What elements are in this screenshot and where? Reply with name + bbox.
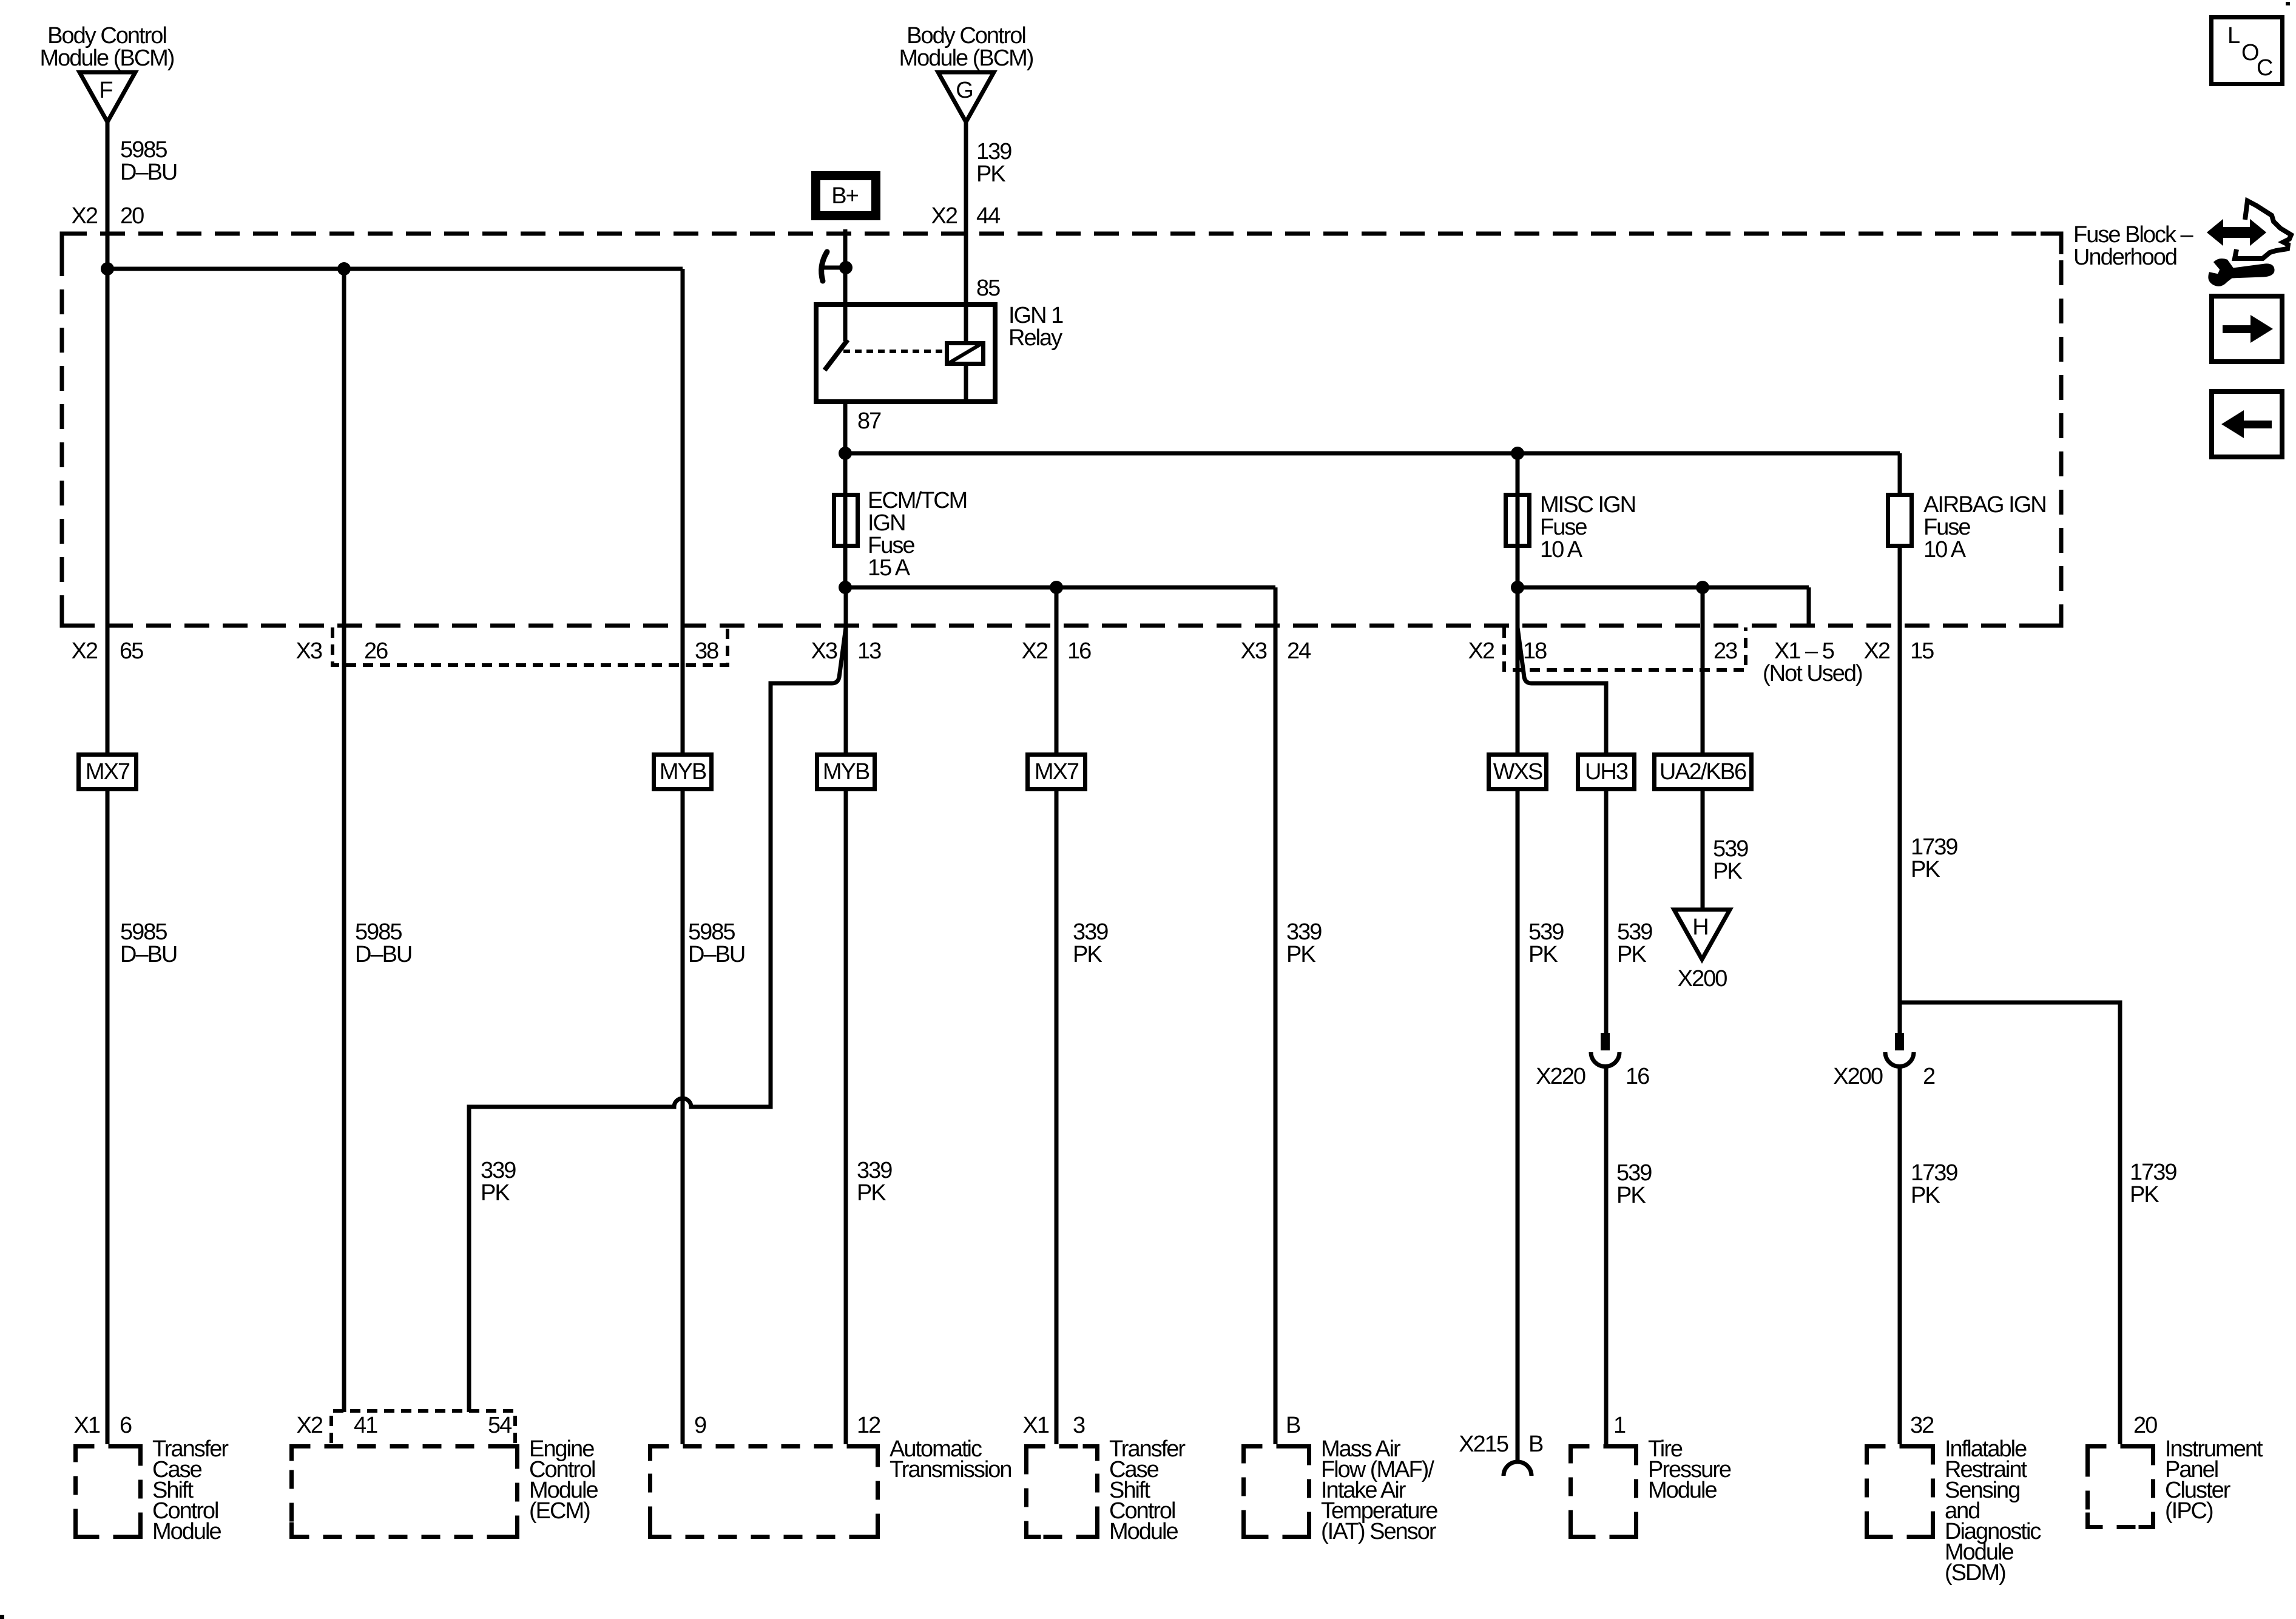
pin X2 18 — [1468, 638, 1547, 664]
wire below X200 connector to SDM pin 32 — [1898, 1066, 1902, 1444]
module Mass Air Flow (MAF) / IAT Sensor — [1244, 1413, 1438, 1544]
svg-text:MYB: MYB — [823, 759, 869, 785]
node junction dot 87 bus at MISC IGN fuse — [1511, 447, 1524, 460]
svg-text:Relay: Relay — [1008, 325, 1062, 351]
node junction dot below MISC IGN fuse — [1511, 581, 1524, 594]
label circuit 539 PK (UA2/KB6 column) — [1713, 836, 1748, 884]
svg-text:D–BU: D–BU — [120, 160, 177, 185]
module Inflatable Restraint Sensing and Diagnostic Module (SDM) — [1867, 1413, 2041, 1586]
svg-text:PK: PK — [1911, 1183, 1940, 1208]
svg-text:X2: X2 — [1864, 638, 1890, 664]
svg-text:15 A: 15 A — [868, 555, 911, 581]
module Instrument Panel Cluster (IPC) — [2088, 1413, 2263, 1527]
label circuit 339 PK (X2-16 column) — [1073, 919, 1108, 967]
fuse block underhood dashed boundary — [62, 234, 2061, 626]
svg-text:X2: X2 — [1468, 638, 1494, 664]
wires layer — [101, 122, 2120, 1462]
wire 87 bus across fuse block — [845, 451, 1900, 456]
svg-text:44: 44 — [976, 203, 1001, 229]
trace box MX7 (X2-16 column) — [1028, 755, 1086, 789]
svg-text:15: 15 — [1910, 638, 1934, 664]
inline connector X200 pin 2 — [1833, 1033, 1935, 1089]
svg-text:PK: PK — [1073, 942, 1102, 967]
label circuit 139 PK at G — [976, 139, 1011, 187]
svg-text:X2: X2 — [72, 203, 98, 229]
label circuit 339 PK (X3-24 column) — [1286, 919, 1322, 967]
pin X2 44 — [931, 203, 1001, 229]
svg-text:1739: 1739 — [1911, 834, 1957, 860]
svg-text:X1: X1 — [74, 1413, 100, 1438]
icon arrow right box — [2212, 296, 2282, 362]
wire G down from BCM triangle to relay coil — [964, 122, 968, 341]
wire AIRBAG IGN output column — [1898, 548, 1902, 1034]
svg-text:2: 2 — [1923, 1064, 1935, 1089]
svg-text:5985: 5985 — [120, 137, 167, 163]
svg-text:23: 23 — [1714, 638, 1737, 664]
svg-text:539: 539 — [1617, 919, 1652, 945]
wire X2-16 column down — [1055, 587, 1059, 1444]
svg-text:339: 339 — [481, 1158, 516, 1183]
connector strip X3 26-38 dotted — [333, 627, 728, 665]
label circuit 5985 D-BU (X2-65 column) — [120, 919, 177, 967]
svg-text:X2: X2 — [1022, 638, 1048, 664]
svg-text:Fuse: Fuse — [1540, 515, 1587, 540]
wire UH3 column down to X220 connector — [1604, 789, 1609, 1034]
icon arrow left box — [2212, 391, 2282, 457]
svg-text:339: 339 — [1073, 919, 1108, 945]
relay actuation dashed link — [843, 350, 945, 353]
svg-text:PK: PK — [1911, 857, 1940, 882]
wire branch X3-13 diagonal to 339 PK run — [469, 627, 846, 1412]
pin X3 13 — [811, 638, 882, 664]
svg-text:PK: PK — [1713, 859, 1742, 884]
label circuit 1739 PK (IPC branch) — [2130, 1160, 2176, 1208]
svg-text:X2: X2 — [297, 1413, 323, 1438]
svg-text:24: 24 — [1287, 638, 1311, 664]
trace box UA2/KB6 — [1655, 755, 1752, 789]
svg-text:13: 13 — [857, 638, 881, 664]
svg-text:38: 38 — [695, 638, 718, 664]
relay U1 IGN 1 Relay — [816, 252, 1063, 434]
svg-text:(IPC): (IPC) — [2165, 1498, 2213, 1524]
svg-text:Module (BCM): Module (BCM) — [40, 46, 174, 71]
wire branch X2-18 diagonal to UH3 column — [1518, 627, 1606, 752]
label circuit 1739 PK (SDM column lower) — [1911, 1160, 1957, 1208]
pin X2 20 — [72, 203, 144, 229]
svg-text:Underhood: Underhood — [2073, 245, 2176, 270]
svg-text:20: 20 — [2133, 1413, 2157, 1438]
svg-text:H: H — [1692, 914, 1707, 940]
svg-text:Module: Module — [152, 1519, 221, 1544]
icon component view with arrow and wrench — [2209, 201, 2291, 285]
wire ECM-TCM fuse column through fuse — [843, 453, 848, 587]
svg-text:B+: B+ — [831, 183, 858, 209]
svg-text:X3: X3 — [296, 638, 322, 664]
module Engine Control Module (ECM) — [292, 1413, 598, 1537]
label circuit 539 PK (UH3 column upper) — [1617, 919, 1652, 967]
wire bus below ECM-TCM fuse — [845, 586, 1275, 590]
svg-text:539: 539 — [1616, 1160, 1652, 1186]
wire X2-18 column down to WXS — [1516, 587, 1520, 752]
trace box WXS — [1489, 755, 1547, 789]
svg-text:87: 87 — [857, 408, 881, 434]
svg-text:D–BU: D–BU — [688, 942, 745, 967]
svg-text:D–BU: D–BU — [355, 942, 411, 967]
svg-text:139: 139 — [976, 139, 1011, 164]
pin X2 16 — [1022, 638, 1092, 664]
wire 38 column down to pin 9 — [681, 269, 685, 1444]
connector strip ECM X2 dotted — [331, 1411, 515, 1443]
wire stub X1-5 not used — [1807, 587, 1811, 624]
svg-text:Module: Module — [1109, 1519, 1178, 1544]
svg-text:85: 85 — [976, 275, 1000, 301]
svg-text:26: 26 — [364, 638, 388, 664]
wire X3-13 column down to pin 12 — [844, 587, 848, 1444]
svg-text:PK: PK — [1528, 942, 1558, 967]
svg-text:(SDM): (SDM) — [1945, 1560, 2005, 1586]
page corner mark top right — [2286, 2, 2290, 5]
svg-text:X200: X200 — [1678, 966, 1727, 992]
inline connector X215 pin B — [1459, 1431, 1543, 1476]
pin X2 15 — [1864, 638, 1934, 664]
pin X1 - 5 Not Used — [1763, 638, 1862, 686]
page corner mark — [0, 1615, 4, 1619]
module box corner dashes — [62, 234, 2153, 1537]
power symbol B+ — [811, 171, 880, 220]
svg-text:1739: 1739 — [1911, 1160, 1957, 1186]
wire relay coil to relay box bottom — [964, 366, 968, 404]
label circuit 1739 PK (AIRBAG column upper) — [1911, 834, 1957, 882]
svg-text:MYB: MYB — [660, 759, 706, 785]
svg-text:MX7: MX7 — [1035, 759, 1079, 785]
module Transfer Case Shift Control Module (right) — [1023, 1413, 1186, 1544]
svg-text:PK: PK — [1616, 1183, 1646, 1208]
node junction dot below ECM-TCM fuse — [839, 581, 852, 594]
svg-text:1: 1 — [1613, 1413, 1626, 1438]
svg-text:20: 20 — [120, 203, 144, 229]
pin X3 24 — [1241, 638, 1312, 664]
module Automatic Transmission — [650, 1413, 1011, 1537]
wire UA2-KB6 column to H triangle — [1701, 789, 1705, 910]
svg-text:X1 – 5: X1 – 5 — [1774, 638, 1834, 664]
svg-text:PK: PK — [2130, 1182, 2159, 1208]
wire relay 87 down to bus — [843, 404, 848, 453]
pin X3 26 — [296, 638, 388, 664]
module Tire Pressure Module — [1571, 1413, 1731, 1537]
wire X3-26 column down to ECM pin 41 — [342, 269, 346, 1412]
svg-text:6: 6 — [120, 1413, 132, 1438]
node junction dot at X3-26 bus — [337, 262, 351, 275]
svg-text:D–BU: D–BU — [120, 942, 177, 967]
svg-text:Fuse Block –: Fuse Block – — [2073, 222, 2194, 248]
svg-text:X2: X2 — [931, 203, 957, 229]
svg-text:10 A: 10 A — [1923, 537, 1967, 563]
svg-text:Body Control: Body Control — [907, 23, 1025, 49]
svg-text:41: 41 — [354, 1413, 377, 1438]
svg-text:X3: X3 — [811, 638, 837, 664]
svg-text:F: F — [99, 78, 112, 103]
svg-text:X2: X2 — [72, 638, 98, 664]
relay coil — [947, 343, 984, 364]
connector H to ground X200 — [1674, 910, 1730, 992]
label Fuse Block - Underhood — [2073, 222, 2194, 270]
label circuit 5985 D-BU at F — [120, 137, 177, 185]
svg-text:L: L — [2227, 23, 2240, 49]
svg-text:MISC IGN: MISC IGN — [1540, 492, 1635, 518]
trace box UH3 — [1578, 755, 1635, 789]
svg-text:ECM/TCM: ECM/TCM — [868, 488, 967, 513]
svg-text:(Not Used): (Not Used) — [1763, 661, 1862, 686]
relay switch arm — [825, 340, 848, 370]
wire drop to AIRBAG IGN fuse — [1898, 453, 1902, 493]
connector G from Body Control Module — [899, 23, 1033, 122]
wire B+ down to relay switch — [843, 229, 848, 341]
inline connector X220 pin 16 — [1536, 1033, 1649, 1089]
fuse F1 ECM/TCM IGN Fuse 15 A — [834, 488, 967, 581]
svg-text:65: 65 — [120, 638, 143, 664]
node junction dot at relay contact — [839, 261, 853, 274]
relay fixed contact hook — [822, 252, 827, 281]
icon LOC box — [2212, 18, 2283, 84]
wire WXS column down to X215 connector — [1516, 789, 1520, 1462]
label circuit 339 PK (X3-13 column) — [857, 1158, 892, 1206]
svg-text:16: 16 — [1067, 638, 1091, 664]
svg-text:9: 9 — [694, 1413, 706, 1438]
node junction dot at X2-16 drop — [1050, 581, 1063, 594]
pin X2 65 — [72, 638, 144, 664]
svg-text:X3: X3 — [1241, 638, 1267, 664]
trace box MYB (X3-13 column) — [817, 755, 875, 789]
fuse F3 AIRBAG IGN Fuse 10 A — [1888, 492, 2046, 563]
svg-text:IGN: IGN — [868, 510, 905, 536]
wire MISC IGN fuse column — [1516, 453, 1520, 587]
svg-text:X1: X1 — [1023, 1413, 1049, 1438]
wire F down from BCM triangle to bus — [106, 122, 110, 269]
svg-text:WXS: WXS — [1493, 759, 1542, 785]
wire X2-65 column down — [106, 269, 110, 1444]
trace box MYB (38 column) — [654, 755, 712, 789]
wire bus from X2-20 across top of fuse block — [107, 267, 683, 271]
svg-text:UH3: UH3 — [1585, 759, 1628, 785]
svg-text:B: B — [1528, 1431, 1543, 1457]
svg-text:X220: X220 — [1536, 1064, 1585, 1089]
svg-text:B: B — [1286, 1413, 1300, 1438]
label circuit 539 PK (UH3 column lower) — [1616, 1160, 1652, 1208]
svg-text:32: 32 — [1910, 1413, 1934, 1438]
svg-text:PK: PK — [1617, 942, 1646, 967]
module Transfer Case Shift Control Module (left) — [74, 1413, 229, 1544]
wire X3-24 column down to MAF pin B — [1274, 587, 1278, 1444]
trace box MX7 (X2-65 column) — [79, 755, 137, 789]
svg-text:AIRBAG IGN: AIRBAG IGN — [1923, 492, 2046, 518]
svg-text:IGN 1: IGN 1 — [1008, 303, 1063, 328]
wire UH3 column below X220 to Tire Pressure pin 1 — [1604, 1066, 1609, 1444]
svg-text:UA2/KB6: UA2/KB6 — [1660, 759, 1746, 785]
svg-text:C: C — [2257, 55, 2272, 81]
svg-text:5985: 5985 — [355, 919, 402, 945]
connector strip X2 18-23 dotted — [1504, 627, 1746, 670]
node junction dot 87 bus at ECM-TCM fuse — [839, 447, 852, 460]
svg-text:Transmission: Transmission — [890, 1457, 1011, 1482]
relay box — [816, 305, 995, 402]
node junction dot at F bus — [101, 262, 114, 275]
svg-text:X215: X215 — [1459, 1431, 1508, 1457]
svg-text:Module (BCM): Module (BCM) — [899, 46, 1033, 71]
svg-text:Fuse: Fuse — [868, 533, 914, 558]
svg-text:1739: 1739 — [2130, 1160, 2176, 1185]
wire bus below MISC IGN fuse — [1518, 586, 1809, 590]
svg-text:54: 54 — [488, 1413, 512, 1438]
svg-text:12: 12 — [857, 1413, 880, 1438]
svg-text:Module: Module — [1648, 1478, 1717, 1503]
connector F from Body Control Module — [40, 23, 174, 122]
svg-text:PK: PK — [1286, 942, 1315, 967]
svg-text:PK: PK — [976, 161, 1005, 187]
svg-text:MX7: MX7 — [86, 759, 130, 785]
svg-text:18: 18 — [1523, 638, 1547, 664]
svg-text:(IAT) Sensor: (IAT) Sensor — [1321, 1519, 1437, 1544]
label circuit 5985 D-BU (X3-26 column) — [355, 919, 411, 967]
svg-text:Body Control: Body Control — [47, 23, 166, 49]
svg-text:PK: PK — [857, 1180, 886, 1206]
svg-text:10 A: 10 A — [1540, 537, 1583, 563]
svg-text:(ECM): (ECM) — [529, 1498, 590, 1524]
wire UA2-KB6 column down — [1701, 587, 1705, 752]
svg-text:PK: PK — [481, 1180, 510, 1206]
svg-text:X200: X200 — [1833, 1064, 1883, 1089]
svg-text:339: 339 — [1286, 919, 1322, 945]
svg-text:339: 339 — [857, 1158, 892, 1183]
svg-text:5985: 5985 — [688, 919, 735, 945]
svg-text:539: 539 — [1713, 836, 1748, 862]
svg-text:539: 539 — [1528, 919, 1564, 945]
label circuit 339 PK (pin 54 branch) — [481, 1158, 516, 1206]
label circuit 5985 D-BU (38 column) — [688, 919, 745, 967]
svg-text:O: O — [2241, 40, 2258, 66]
svg-text:5985: 5985 — [120, 919, 167, 945]
node junction dot at UA2-KB6 drop — [1696, 581, 1709, 594]
svg-text:3: 3 — [1073, 1413, 1085, 1438]
fuse F2 MISC IGN Fuse 10 A — [1506, 492, 1636, 563]
svg-text:16: 16 — [1626, 1064, 1649, 1089]
svg-text:Fuse: Fuse — [1923, 515, 1970, 540]
wire branch to IPC pin 20 — [1900, 1002, 2120, 1444]
svg-text:G: G — [956, 78, 973, 103]
label circuit 539 PK (WXS column) — [1528, 919, 1564, 967]
